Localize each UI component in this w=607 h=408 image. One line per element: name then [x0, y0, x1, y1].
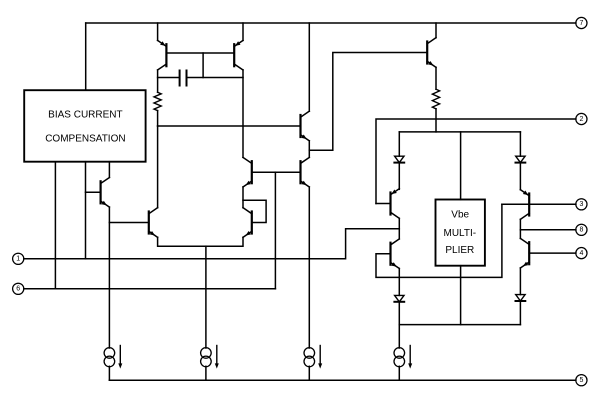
box BIAS CURRENT COMPENSATION — [24, 90, 145, 162]
svg-text:MULTI-: MULTI- — [444, 228, 477, 239]
wire box bottom left drop to pin 6 net — [54, 162, 56, 289]
transistor Q5 — [301, 111, 310, 141]
wire Q5 emitter down to Q8 collector — [308, 141, 310, 158]
wire top rail drop to diode D3 — [519, 132, 521, 156]
wire R1 bottom to second stage node — [157, 111, 159, 126]
svg-text:7: 7 — [579, 20, 583, 27]
wire pin 6 net — [24, 288, 276, 290]
wire top supply rail to pin 7 — [86, 22, 576, 24]
wire bottom rail to pin 5 — [109, 379, 576, 381]
wire bias spreader bottom rail — [399, 324, 520, 326]
wire Q3 collector column down to resistor R1 — [157, 70, 159, 92]
wire Q10 collector to Q11 collector — [398, 218, 400, 239]
wire current source I2 feed — [205, 246, 207, 348]
wire Q12 collector to Q13 collector — [519, 219, 521, 238]
box Vbe MULTIPLIER — [436, 200, 485, 266]
transistor Q7 — [243, 208, 252, 238]
svg-text:3: 3 — [579, 201, 583, 208]
svg-text:8: 8 — [579, 227, 583, 234]
wire Q3-Q4 base rail — [166, 52, 234, 54]
diode D4 — [516, 295, 526, 301]
wire Q5 collector to rail — [308, 23, 310, 111]
wire Q8 emitter down to current source I3 — [308, 187, 310, 348]
capacitor C1 right wire — [187, 77, 244, 79]
resistor R1 — [154, 92, 161, 110]
transistor Q4 — [234, 40, 243, 70]
capacitor C1 left wire — [158, 77, 180, 79]
diode D3 — [516, 156, 526, 162]
svg-text:6: 6 — [16, 286, 20, 293]
current source I4 — [394, 346, 412, 369]
diode D2 — [394, 295, 404, 301]
wire differential pair emitter bus — [158, 237, 243, 246]
pin 5 — [576, 375, 587, 386]
pin 1 — [13, 253, 24, 264]
transistor Q3 — [158, 40, 167, 70]
svg-text:5: 5 — [579, 377, 583, 384]
svg-text:4: 4 — [579, 250, 583, 257]
wire bias spreader top rail — [399, 131, 520, 133]
transistor Q12 — [520, 190, 529, 220]
capacitor C1 — [180, 71, 187, 86]
wire mirror base riser to pin 6 net — [274, 172, 276, 289]
wire I1 to bottom rail — [108, 366, 110, 380]
transistor Q8 — [301, 157, 310, 187]
wire second stage node to Q5 base — [158, 125, 301, 127]
wire Q3 emitter to rail — [157, 23, 159, 40]
pin 3 — [576, 199, 587, 210]
wire D2 to current source I4 — [398, 302, 400, 348]
wire Q4 emitter to rail — [242, 23, 244, 40]
wire Vbe box bottom feed — [460, 266, 462, 325]
svg-text:1: 1 — [16, 256, 20, 263]
svg-text:BIAS CURRENT: BIAS CURRENT — [48, 110, 122, 121]
wire pin 2 output net — [376, 119, 576, 204]
wire Q4 collector column down to Q6 — [242, 70, 244, 157]
wire driver base staircase — [309, 53, 426, 151]
wire Q11 emitter to diode D2 — [398, 269, 400, 296]
wire rail tap into bias box top — [85, 23, 87, 90]
wire D3 to Q12 emitter — [519, 163, 521, 190]
current source I1 — [104, 346, 122, 369]
wire Q6 emitter down to Q7 — [242, 187, 244, 208]
wire Q13 emitter to diode D4 — [519, 268, 521, 295]
current source I2 — [201, 346, 219, 369]
wire Q2 base from Q1 emitter column — [109, 222, 148, 224]
wire Q10 base — [376, 203, 391, 205]
wire Q9 emitter to resistor R2 — [435, 67, 437, 89]
wire D4 down to bottom spreader rail — [519, 301, 521, 325]
wire Q7 base-collector loop — [243, 200, 266, 222]
pin 7 — [576, 17, 587, 28]
wire pin 4 net — [529, 252, 576, 254]
wire Q2 collector up to second stage node — [157, 126, 159, 208]
transistor Q11 — [391, 239, 400, 269]
wire R2 bottom through pin2 net to bias spreader rail — [435, 109, 437, 132]
wire Q9 collector to rail — [435, 23, 437, 38]
wire box bottom right drop to Q1 collector — [108, 162, 110, 178]
transistor Q10 — [391, 189, 400, 219]
current source I3 — [304, 346, 322, 369]
transistor Q9 driver — [427, 38, 436, 68]
wire I2 to bottom rail — [205, 366, 207, 380]
pin 6 — [13, 283, 24, 294]
wire I3 to bottom rail — [308, 366, 310, 380]
wire pin 8 net — [520, 229, 576, 231]
pin 4 — [576, 248, 587, 259]
wire Vbe box top feed — [460, 132, 462, 200]
wire Q6-Q8 base link — [252, 171, 301, 173]
svg-text:2: 2 — [579, 116, 583, 123]
wire base rail tap to compensation node — [202, 53, 204, 78]
transistor Q6 — [243, 157, 252, 187]
diode D1 — [394, 156, 404, 162]
transistor Q1 — [101, 178, 110, 208]
wire pin 1 net staircase to Q10-Q11 node — [24, 229, 400, 259]
svg-text:PLIER: PLIER — [445, 245, 474, 256]
resistor R2 — [432, 89, 439, 109]
wire I4 to bottom rail — [398, 366, 400, 380]
pin 8 — [576, 224, 587, 235]
pin 2 — [576, 113, 587, 124]
svg-text:COMPENSATION: COMPENSATION — [45, 134, 125, 145]
wire top rail drop to diode D1 — [398, 132, 400, 156]
transistor Q13 — [520, 238, 529, 268]
wire Q1 emitter down to current source I1 — [108, 207, 110, 348]
wire D1 to Q10 emitter — [398, 163, 400, 190]
wire Q1 base — [86, 191, 101, 193]
wire box bottom middle drop to pin 1 net — [85, 162, 87, 259]
transistor Q2 — [149, 208, 158, 238]
svg-text:Vbe: Vbe — [451, 210, 469, 221]
wire Q11 base loop — [376, 204, 502, 277]
wire pin 3 net — [502, 203, 576, 205]
